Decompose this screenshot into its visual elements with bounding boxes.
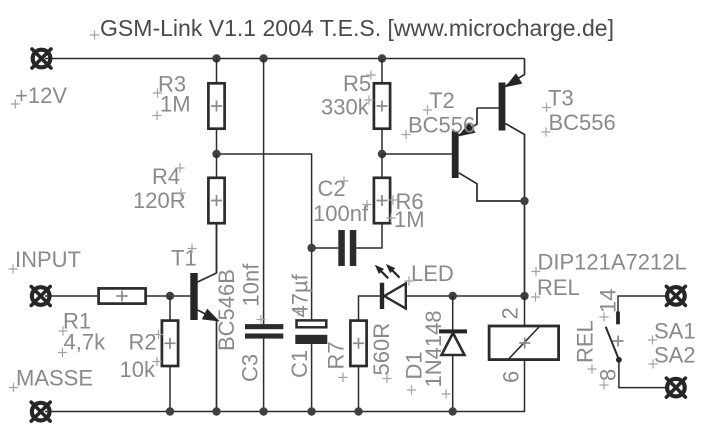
origin cross 100nf: [362, 200, 371, 209]
svg-text:DIP121A7212L: DIP121A7212L: [538, 250, 687, 275]
transistor T3: [499, 59, 525, 297]
svg-text:C1: C1: [287, 350, 312, 378]
junction rail C3: [259, 407, 267, 415]
svg-text:T2: T2: [429, 88, 455, 113]
wire +12V top rail: [45, 58, 525, 60]
svg-text:R2: R2: [129, 330, 157, 355]
origin cross BC556 T3: [541, 127, 550, 136]
junction rail C1: [307, 407, 315, 415]
origin cross 120R: [176, 188, 185, 197]
relay coil REL: [489, 326, 558, 360]
origin cross R2: [154, 330, 163, 339]
svg-text:BC546B: BC546B: [214, 269, 239, 351]
svg-text:GSM-Link V1.1 2004 T.E.S. [www: GSM-Link V1.1 2004 T.E.S. [www.microchar…: [100, 15, 614, 41]
junction rail T1: [212, 407, 220, 415]
svg-text:C3: C3: [238, 354, 263, 382]
junction R5/R6 node: [378, 150, 386, 158]
svg-text:T1: T1: [171, 246, 197, 271]
junction C1/C2 node: [307, 244, 315, 252]
junction base node: [166, 292, 174, 300]
origin cross REL coil: [531, 292, 540, 301]
wire C3 bottom: [263, 339, 265, 412]
svg-text:BC556: BC556: [408, 113, 475, 138]
svg-text:BC556: BC556: [549, 110, 616, 135]
capacitor C2: [338, 230, 356, 266]
LED: [372, 261, 406, 309]
origin cross R3: [153, 88, 162, 97]
svg-text:330k: 330k: [321, 95, 370, 120]
wire node R3/R4 to C2/C1 column: [217, 154, 312, 319]
svg-text:560R: 560R: [369, 323, 394, 376]
origin cross 10k: [152, 357, 161, 366]
transistor T2: [452, 108, 525, 201]
wire R5 top: [381, 59, 383, 83]
svg-text:SA2: SA2: [654, 343, 696, 368]
svg-text:10nf: 10nf: [239, 263, 264, 307]
origin cross 1N4148: [441, 389, 450, 398]
wire R7 bottom: [358, 366, 360, 412]
junction rail R2: [166, 407, 174, 415]
svg-text:100nf: 100nf: [313, 201, 369, 226]
origin cross R6: [388, 195, 397, 204]
terminal INPUT: [31, 287, 50, 306]
wire R3 top: [216, 59, 218, 83]
svg-text:SA1: SA1: [654, 319, 696, 344]
origin cross C1: [294, 307, 303, 316]
junction relay node: [520, 292, 528, 300]
origin cross LED: [404, 276, 413, 285]
origin cross pin 14: [599, 312, 608, 321]
origin cross T1: [187, 244, 196, 253]
wire C2 left to node: [312, 247, 339, 249]
svg-text:1M: 1M: [394, 207, 425, 232]
junction rail R7: [354, 407, 362, 415]
origin cross R1: [58, 326, 67, 335]
origin cross SA2: [648, 359, 657, 368]
svg-text:C2: C2: [318, 176, 346, 201]
wire LED left / R7 top: [359, 296, 380, 320]
origin cross switch REL: [587, 364, 596, 373]
origin cross pin 8: [599, 380, 608, 389]
wire R2 top: [169, 296, 171, 320]
svg-text:8: 8: [596, 369, 621, 381]
diode D1: [439, 329, 467, 355]
wire C1 bottom: [311, 344, 313, 412]
svg-text:REL: REL: [537, 275, 580, 300]
svg-text:6: 6: [499, 371, 524, 383]
junction R3/R4 node: [212, 150, 220, 158]
switch pivot: [616, 357, 622, 363]
resistor R7: [350, 321, 366, 366]
origin cross D1: [407, 385, 416, 394]
resistor R4: [208, 178, 224, 223]
wire R1 to T1 base: [147, 295, 191, 297]
wire R6 bottom to C2: [356, 224, 382, 248]
svg-text:1M: 1M: [160, 92, 191, 117]
origin cross C2: [339, 176, 348, 185]
wire R3 bottom to node: [216, 130, 218, 155]
wire LED to relay node: [406, 295, 525, 297]
terminal +12V: [32, 49, 51, 68]
resistor R5: [374, 83, 390, 128]
wire D1 bottom: [452, 354, 454, 412]
capacitor C3: [245, 324, 283, 339]
junction D1 top: [449, 292, 457, 300]
wire C3 top: [263, 59, 265, 325]
resistor R3: [208, 83, 224, 128]
resistor R6: [374, 178, 390, 223]
terminal SA1: [666, 286, 685, 305]
wire R2 bottom: [169, 366, 171, 412]
wire relay coil top: [524, 296, 526, 326]
origin cross R4: [175, 163, 184, 172]
origin cross +12V: [11, 99, 20, 108]
wire R5 bottom: [381, 130, 383, 155]
svg-text:4,7k: 4,7k: [64, 330, 107, 355]
svg-text:R7: R7: [324, 341, 349, 369]
junction top rail at R3: [212, 54, 220, 62]
svg-text:T3: T3: [548, 86, 574, 111]
origin cross R5: [366, 70, 375, 79]
origin cross MASSE: [9, 383, 18, 392]
origin cross R7: [338, 373, 347, 382]
svg-text:47µf: 47µf: [288, 273, 313, 317]
svg-text:INPUT: INPUT: [15, 247, 81, 272]
svg-text:120R: 120R: [133, 188, 186, 213]
junction top rail at C3: [259, 54, 267, 62]
origin cross 560R: [382, 374, 391, 383]
terminal MASSE: [31, 402, 50, 421]
junction rail D1: [449, 407, 457, 415]
origin cross INPUT: [8, 264, 17, 273]
resistor R2: [162, 321, 178, 366]
switch lever: [606, 327, 619, 360]
svg-text:10k: 10k: [120, 357, 156, 382]
origin cross BC556 T2: [401, 130, 410, 139]
origin cross 1M: [152, 111, 161, 120]
svg-text:1N4148: 1N4148: [421, 310, 446, 387]
switch contact bar: [616, 312, 620, 325]
svg-text:+12V: +12V: [15, 83, 67, 108]
switch centre cross: [613, 336, 624, 347]
svg-text:MASSE: MASSE: [16, 366, 93, 391]
wire switch pin 14: [618, 296, 666, 312]
origin cross 4,7k: [58, 348, 67, 357]
origin cross DIP: [531, 267, 540, 276]
junction T2/T3 collectors: [520, 197, 528, 205]
bottom rail MASSE to relay: [45, 361, 525, 412]
origin cross SA1: [648, 335, 657, 344]
resistor R1: [99, 288, 146, 303]
title origin cross: [90, 30, 99, 39]
terminal SA2: [666, 378, 685, 397]
wire INPUT to R1: [45, 295, 98, 297]
wire D1 top: [452, 296, 454, 330]
svg-text:2: 2: [498, 307, 523, 319]
svg-text:LED: LED: [411, 261, 454, 286]
transistor T3 base wire: [477, 107, 499, 109]
origin cross 330k: [364, 95, 373, 104]
origin cross T2: [423, 105, 432, 114]
junction top rail at R5: [378, 54, 386, 62]
capacitor C1: [295, 320, 327, 344]
wire R4 top: [216, 154, 218, 177]
svg-text:REL: REL: [573, 320, 598, 363]
transistor T2 base wire: [382, 153, 452, 155]
origin cross R6 1M: [386, 213, 395, 222]
origin cross C3: [256, 315, 265, 324]
wire switch pin 8: [619, 360, 666, 388]
svg-text:14: 14: [596, 289, 621, 313]
origin cross T3: [542, 103, 551, 112]
wire R4 bottom: [216, 224, 218, 273]
wire R6 top: [381, 154, 383, 177]
transistor T1: [190, 224, 222, 412]
